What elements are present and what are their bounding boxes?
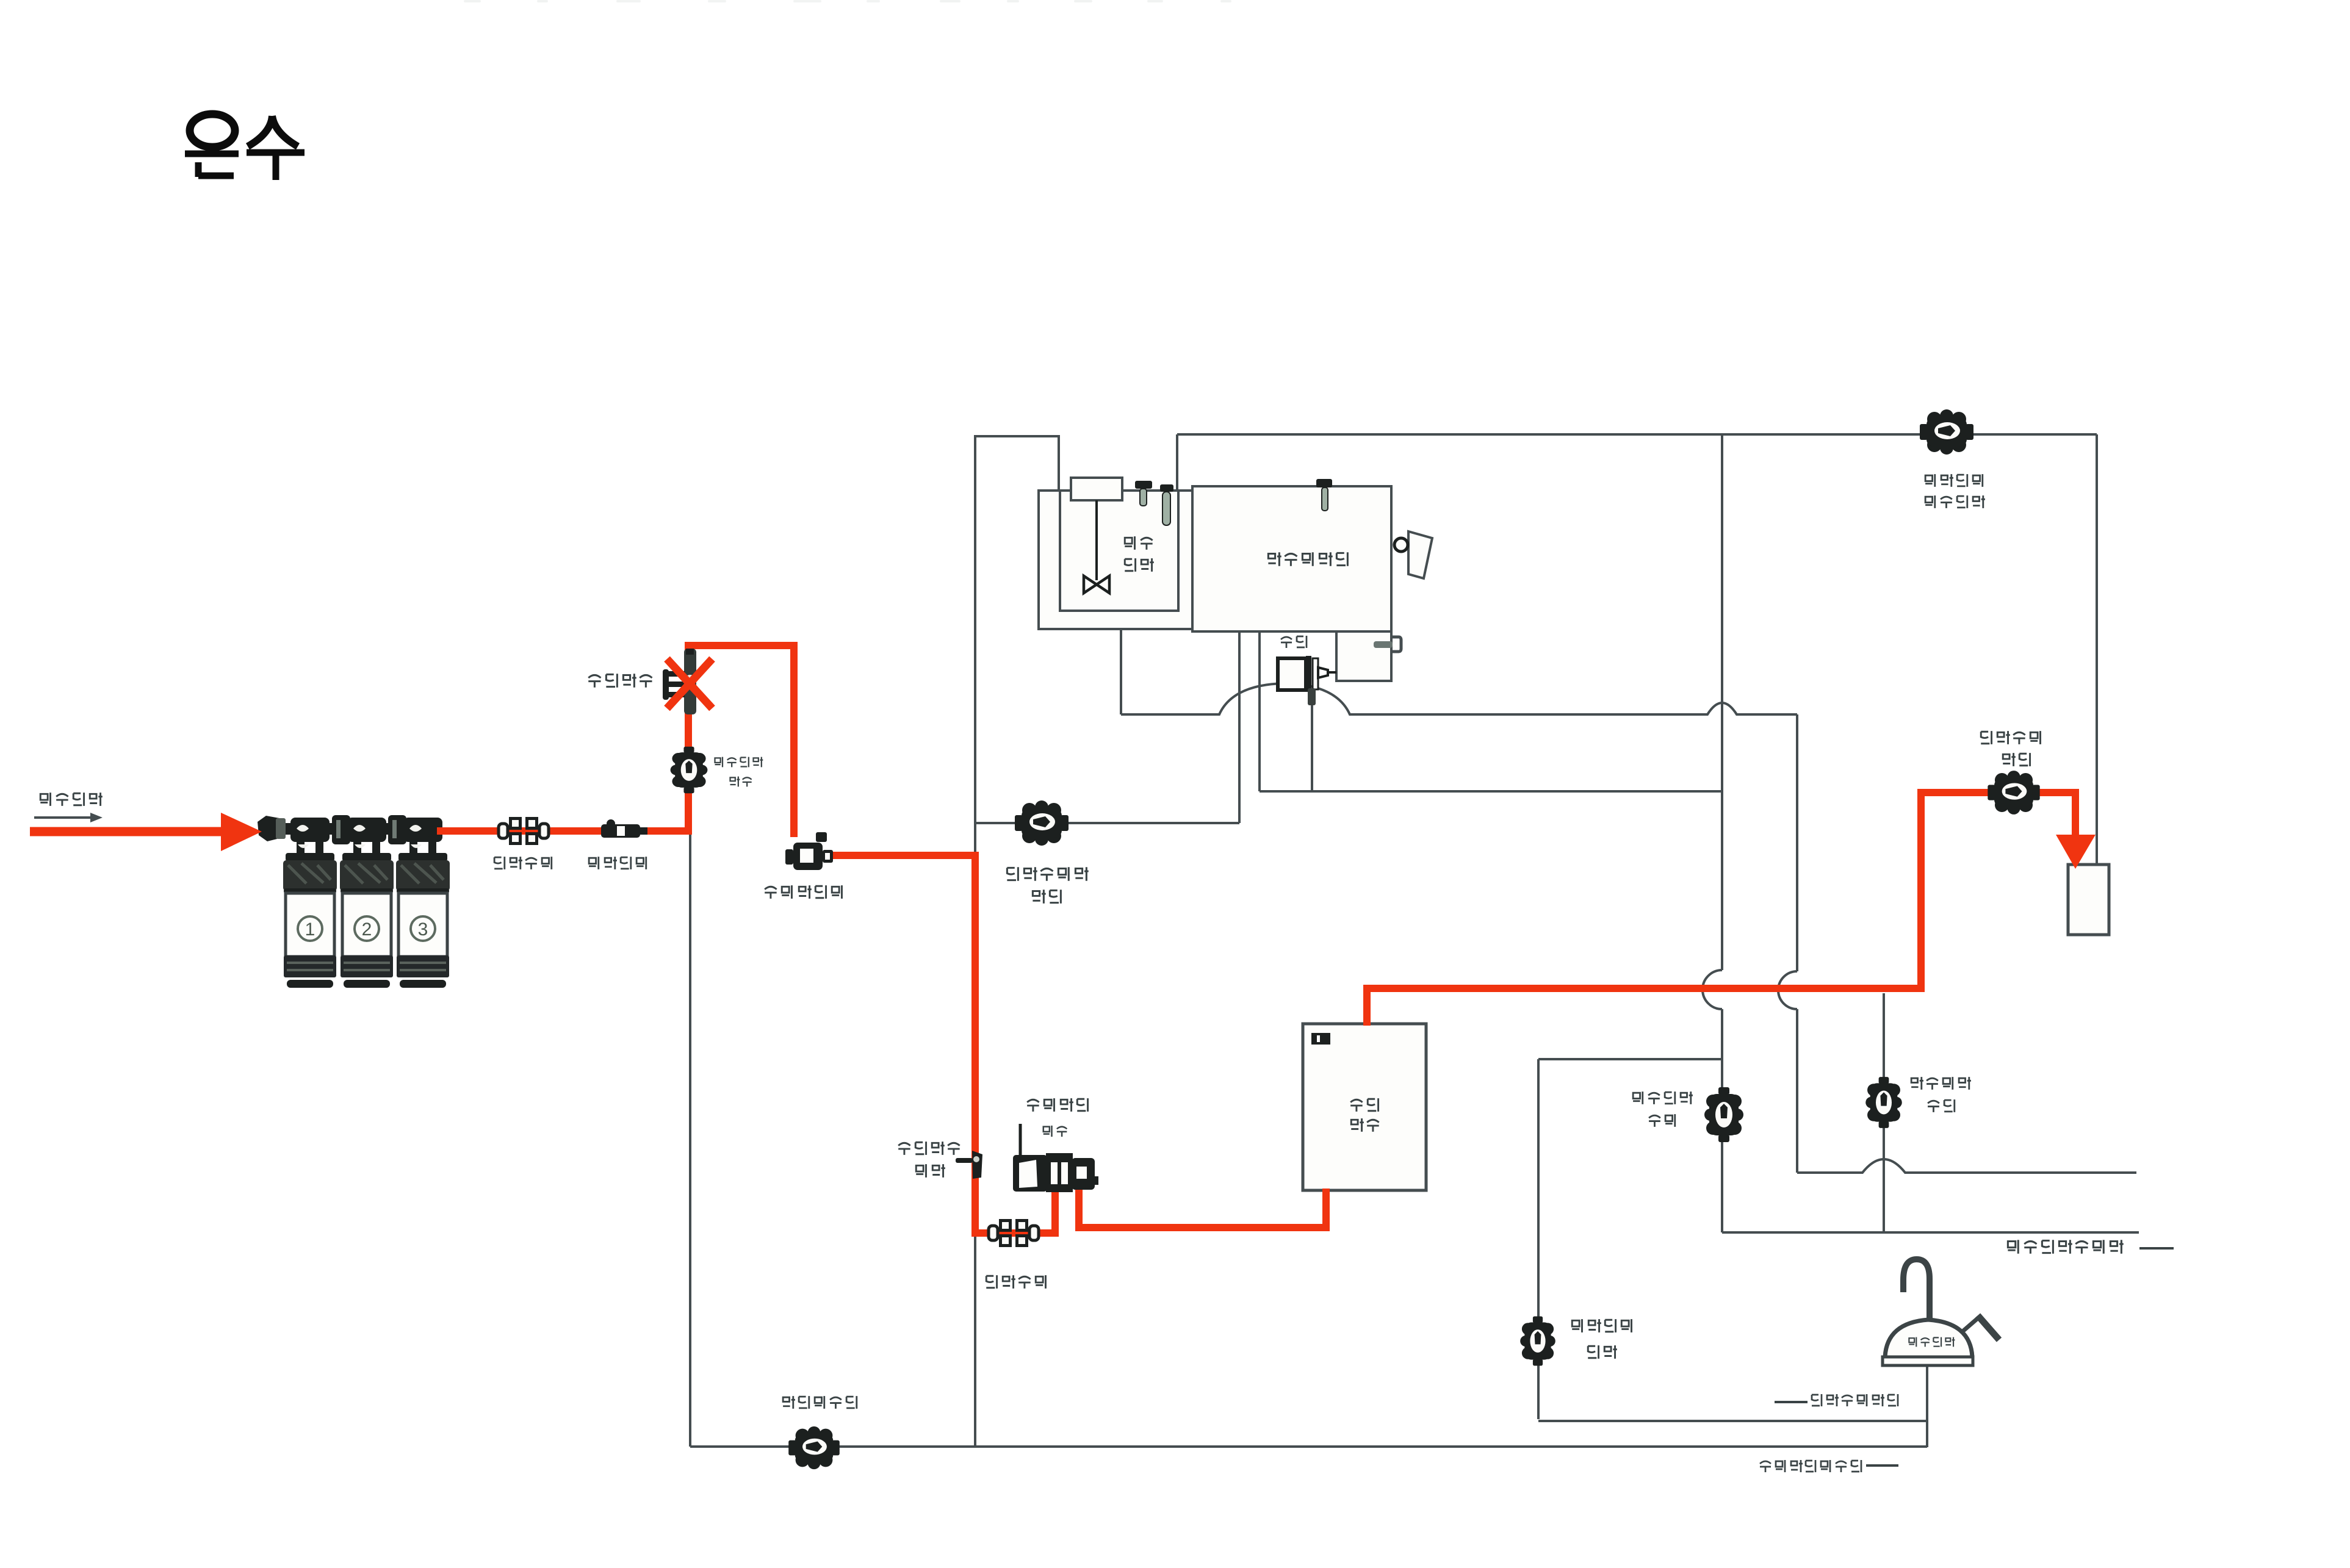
wire icebox drop vertical x2064 <box>1258 631 1261 791</box>
wire hot drain vertical x3087 <box>1883 993 1885 1232</box>
manifold left elbow fitting <box>258 816 279 841</box>
stirrer shaft and propeller <box>1095 500 1098 580</box>
red long horizontal y1620 <box>1363 985 1921 992</box>
label 냉-정수 출수 밸브 <box>1925 474 1985 508</box>
filter cartridge 3 <box>398 853 447 861</box>
cooling tank outer wall <box>1039 491 1192 629</box>
wire vertical x2822 lower <box>1721 1009 1723 1232</box>
filter cartridge 2 <box>342 853 391 861</box>
valve: pressure reducing valve 1 (감압밸브) <box>499 817 549 845</box>
wire top-left stub horizontal <box>974 435 1060 437</box>
red line filters to junction <box>437 827 692 835</box>
label 얼음 저장부 <box>1268 552 1347 566</box>
wire pump outlet vertical x2150 <box>1311 702 1313 791</box>
red up into heater bottom <box>1322 1189 1330 1231</box>
red up to flow valve left port <box>1051 1189 1059 1237</box>
title 온수 (hot water) hand-drawn <box>185 114 305 180</box>
wire icemaker valve horizontal y1349 <box>975 822 1239 824</box>
valve: hot water outlet valve 온수 출수 밸브 <box>1988 771 2039 815</box>
red top horizontal <box>685 642 798 649</box>
label 감압밸브 1 <box>494 857 552 869</box>
wire faucet drop vertical x3158 <box>1926 1365 1928 1447</box>
red strainer to corner <box>825 852 979 859</box>
cooling tank stirrer motor <box>1071 478 1122 500</box>
valve: icemaker inlet valve 제빙부 입수 밸브 <box>1015 800 1069 846</box>
hot water outlet box (faucet spout) <box>2068 865 2109 935</box>
strainer 스트레이너 <box>785 832 833 870</box>
label 입수 온도 센서 <box>898 1142 959 1178</box>
wire cooling tank feed vertical x1735 <box>1058 436 1060 492</box>
wire horizontal y1297 <box>1260 790 1722 793</box>
label 온수 배수 밸브 <box>1911 1077 1971 1112</box>
valve: raw water inlet valve 원수입수 밸브 <box>671 747 708 794</box>
tank bolt long <box>1160 484 1173 492</box>
label 원수입수 (raw water in) <box>40 793 103 806</box>
label 온수 출수 밸브 <box>1981 731 2040 766</box>
label 정수 입수 밸브 <box>1572 1319 1631 1359</box>
ice box chute <box>1408 531 1432 578</box>
wire vertical x2945 upper <box>1796 714 1798 971</box>
red raw water inlet line <box>30 827 223 836</box>
red X over sterilizer <box>667 659 712 708</box>
wire center vertical x1131 <box>689 832 691 1447</box>
label 세척수/정수 + dash <box>1775 1401 1808 1403</box>
red drop to spout <box>2072 789 2079 837</box>
label 온수 히터 <box>1350 1098 1379 1132</box>
wire icebox drop vertical x2031 <box>1238 631 1241 823</box>
red vertical x1598 down <box>971 852 979 1233</box>
red inlet arrowhead <box>221 813 262 851</box>
wire vertical x2822 upper <box>1721 434 1723 970</box>
pump outlet stub <box>1308 688 1316 705</box>
label 유량 조절 밸브 <box>1027 1098 1087 1137</box>
valve: hot water drain valve 온수 배수 밸브 <box>1865 1077 1902 1128</box>
svg-text:2: 2 <box>362 919 372 940</box>
ice storage box <box>1192 486 1391 631</box>
wire hop of x2945 over red <box>1778 971 1797 1009</box>
filter manifold bar <box>267 823 439 835</box>
label 제빙부 입수 밸브 <box>1007 867 1088 904</box>
label 유량센서 <box>589 857 646 869</box>
wire tank feed vertical x1929 <box>1176 434 1178 492</box>
wire tank drain vertical x1837 <box>1120 629 1122 714</box>
pump body <box>1278 658 1306 690</box>
wire drain horizontal y2020 <box>1722 1231 2139 1234</box>
label 감압밸브 2 <box>986 1275 1045 1289</box>
tank bolt short <box>1135 481 1152 489</box>
valve: cold/purified outlet valve 냉-정수 출수 밸브 <box>1920 409 1973 455</box>
wire hop of x2822 over red <box>1703 970 1722 1009</box>
filter cartridge 1 <box>286 853 334 861</box>
label 조리수 밸브 <box>783 1396 857 1409</box>
label 펌프 <box>1281 636 1307 648</box>
tiny faucet text <box>1909 1337 1955 1347</box>
red down from flow valve right port <box>1075 1190 1083 1228</box>
ice box lower-right sub box <box>1336 631 1391 681</box>
wire long horizontal y1171 with hops <box>1121 683 1797 714</box>
valve: pressure reducing valve 2 (감압밸브) <box>989 1219 1039 1247</box>
manifold couplers <box>332 815 350 844</box>
sub box screw <box>1374 641 1393 648</box>
label 냉각 탱크 <box>1125 536 1154 572</box>
label 조리수/살균수 + dash <box>1760 1460 1861 1472</box>
red through pressure valve 2 <box>971 1229 1055 1237</box>
label 살균모듈 <box>588 674 652 688</box>
wire top main horizontal y712 <box>1177 433 2097 436</box>
red to hot outlet valve <box>1917 789 2078 796</box>
scan remnant marks top edge <box>464 0 1231 2</box>
red outlet arrowhead <box>2056 835 2096 869</box>
flow sensor 유량센서 <box>601 819 647 838</box>
valve: purified inlet valve 정수 입수 밸브 <box>1520 1317 1555 1366</box>
cooling tank inner wall <box>1060 491 1178 611</box>
wire main left vertical x1598 <box>974 435 976 1447</box>
valve: cold water drain valve 냉수 배수 밸브 <box>1704 1087 1743 1142</box>
faucet (정수 꼭지) <box>1883 1259 1999 1365</box>
svg-text:3: 3 <box>418 919 428 940</box>
valve: cooking water valve 조리수 밸브 <box>788 1426 840 1469</box>
wire drain horizontal y1922 with hop <box>1797 1159 2136 1173</box>
label 냉수/온수 배수 + dash <box>2008 1240 2123 1254</box>
arrow under 원수입수 <box>34 816 92 819</box>
filter head 1 <box>290 818 330 842</box>
wire right vertical x3436 to outlet box <box>2096 434 2098 866</box>
svg-text:1: 1 <box>305 919 315 940</box>
inlet temperature sensor 입수 온도 센서 <box>956 1151 982 1179</box>
red from heater top <box>1363 985 1371 1026</box>
flow control valve assembly 유량 조절 밸브 <box>1013 1124 1098 1192</box>
wire vertical x2521 <box>1537 1059 1540 1419</box>
sterilizer module 살균모듈 <box>663 649 696 714</box>
filter head 3 <box>403 818 442 842</box>
red drop to strainer <box>790 642 798 837</box>
red rise x3148 <box>1917 789 1925 992</box>
label 원수입수 밸브 <box>715 757 763 787</box>
wire horizontal y2329 washing/purified <box>1538 1420 1927 1422</box>
wire bottom horizontal y2371 <box>690 1445 1927 1448</box>
wire horizontal y1736 <box>1538 1058 1722 1060</box>
filter head 2 <box>347 818 386 842</box>
label 냉수 배수 밸브 <box>1633 1091 1693 1127</box>
pump nozzle <box>1318 667 1328 678</box>
hot water heater box 온수 히터 <box>1303 1024 1426 1190</box>
wire vertical x2945 lower <box>1796 1009 1798 1173</box>
label 스트레이너 <box>765 885 842 899</box>
ice box bolt <box>1316 479 1332 487</box>
red horizontal to heater <box>1075 1224 1326 1231</box>
heater terminal block <box>1311 1033 1330 1045</box>
red vertical to sterilizer <box>685 642 692 831</box>
